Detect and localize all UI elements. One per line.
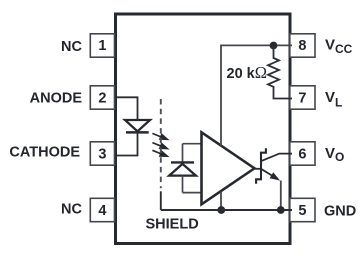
svg-text:3: 3 [98,147,106,163]
wire photodiode bottom to amp input [183,192,202,194]
pin 2 box [90,86,114,109]
pin 6 box [290,142,315,165]
light arrow 1 [152,133,167,139]
node junction dot emitter/ground [277,206,285,214]
svg-text:ANODE: ANODE [30,91,83,107]
wire photodiode top to amp input [183,143,202,145]
wire photodiode anode lead [182,176,184,193]
resistor R1 20 kOhm [268,45,292,98]
wire photodiode cathode lead [182,144,184,164]
svg-text:4: 4 [98,203,106,219]
node junction dot VCC/resistor [270,42,278,50]
amplifier U1A triangle [202,132,255,204]
svg-text:20 kΩ: 20 kΩ [227,63,268,82]
wire pin2 anode lead [115,97,138,120]
transistor Q1 emitter with arrow [262,169,279,180]
svg-text:7: 7 [298,91,306,107]
svg-text:VL: VL [325,89,342,110]
pin 8 box [290,34,315,57]
svg-text:2: 2 [98,91,106,107]
svg-text:1: 1 [98,38,106,54]
pin 4 box [90,198,114,221]
pin 3 box [90,142,114,165]
svg-text:NC: NC [61,39,82,55]
shield connection to ground rail [160,191,162,210]
svg-text:6: 6 [298,147,306,163]
LED emitter diode D1 triangle [125,120,150,131]
light arrow 3 [152,150,167,156]
transistor Q1 schottky base bar [256,148,266,184]
photodiode D2 triangle [169,164,196,176]
pin 7 box [290,86,315,109]
svg-text:CATHODE: CATHODE [9,145,80,161]
svg-text:SHIELD: SHIELD [146,216,199,232]
svg-text:8: 8 [298,38,306,54]
transistor Q1 collector to pin 6 [262,154,292,161]
transistor Q1 base lead [255,168,261,170]
photodiode D2 cathode bar [171,161,194,163]
wire emitter to ground rail [280,181,282,211]
svg-text:VO: VO [325,145,344,164]
IC package body U1 [116,14,291,244]
svg-text:VCC: VCC [325,37,353,56]
wire amp ground lead [220,191,222,210]
pin 5 box [290,198,315,221]
node junction dot amp ground [217,206,225,214]
svg-text:GND: GND [324,203,356,219]
wire cathode lead to pin 3 [115,131,138,155]
shield dashed line [160,99,162,188]
wire ground rail to pin 5 [161,209,292,211]
pin 1 box [90,34,114,57]
svg-text:NC: NC [61,202,82,218]
light arrow 2 [152,143,167,149]
LED cathode bar [126,131,149,134]
wire VCC rail [221,45,292,146]
svg-text:5: 5 [298,203,306,219]
